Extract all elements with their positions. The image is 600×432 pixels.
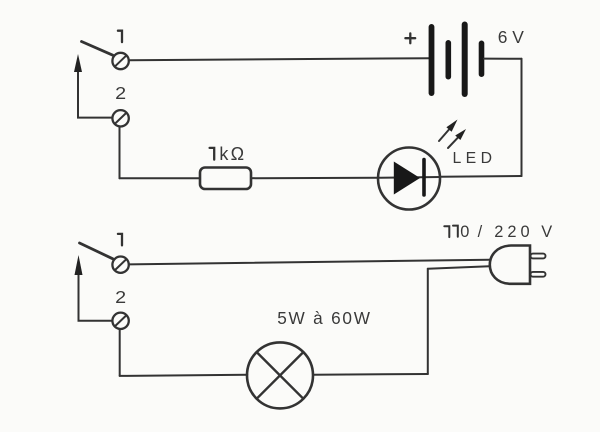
wire cord down to lamp [427,269,429,374]
wire resistor to left [120,177,201,179]
svg-text:2: 2 [115,83,126,103]
label 1 (bottom switch) [118,234,122,246]
wire contact2 down (bottom) [119,329,121,376]
wire corner to LED [440,175,522,178]
switch S1 blade [82,42,113,56]
svg-text:V: V [541,223,552,241]
switch S2 contact 1 terminal [112,257,128,273]
battery B1 plate short [445,43,451,77]
lamp X stroke 1 [257,352,304,399]
LED cathode bar [422,160,426,196]
svg-text:220: 220 [494,223,533,241]
plug P1 body [490,246,530,284]
wire LED to resistor [251,177,378,179]
plug prong 2 [531,272,546,277]
plug prong 1 [531,254,546,259]
wire up to contact 2 [119,127,121,179]
label 110/220V : two custom 1 glyphs [444,226,458,237]
LED anode triangle [394,162,420,195]
wire right vertical (top circuit) [521,59,523,176]
battery B1 plate short 2 [479,43,485,74]
switch S2 contact 2 terminal [112,313,128,329]
switch S1 contact 1 terminal [112,53,128,69]
svg-text:0: 0 [460,223,469,241]
LED D1 circle [378,148,440,210]
wire lamp to cord [313,373,428,376]
switch S1 contact 2 terminal [112,110,128,126]
battery B1 plate long [462,25,468,95]
svg-text:6 V: 6 V [498,27,525,47]
battery B1 plate long + [429,27,435,93]
svg-text:LED: LED [453,150,497,167]
resistor label 1kOhm : custom 1 glyph [210,148,215,160]
wire contact1 to battery [129,58,431,60]
LED light arrow 1 [439,120,458,142]
battery + sign [405,33,415,43]
lamp L1 circle [247,342,313,408]
svg-text:kΩ: kΩ [219,144,246,164]
label 1 (top switch) [118,31,122,42]
switch S2 pole arrow [75,255,113,321]
switch S2 blade [80,243,113,259]
svg-text:/: / [478,223,483,241]
wire through LED [378,176,440,179]
resistor R1 1k box [200,168,251,190]
switch S1 pole arrow [74,54,112,118]
wire contact1 to plug (cord top) [129,260,490,265]
wire to lamp [120,375,248,376]
svg-text:2: 2 [115,287,126,307]
wire battery to right corner [484,58,522,60]
cord bottom wire [428,266,490,269]
LED light arrow 2 [448,129,466,148]
lamp X stroke 2 [257,352,304,399]
svg-text:5W à 60W: 5W à 60W [277,308,372,328]
